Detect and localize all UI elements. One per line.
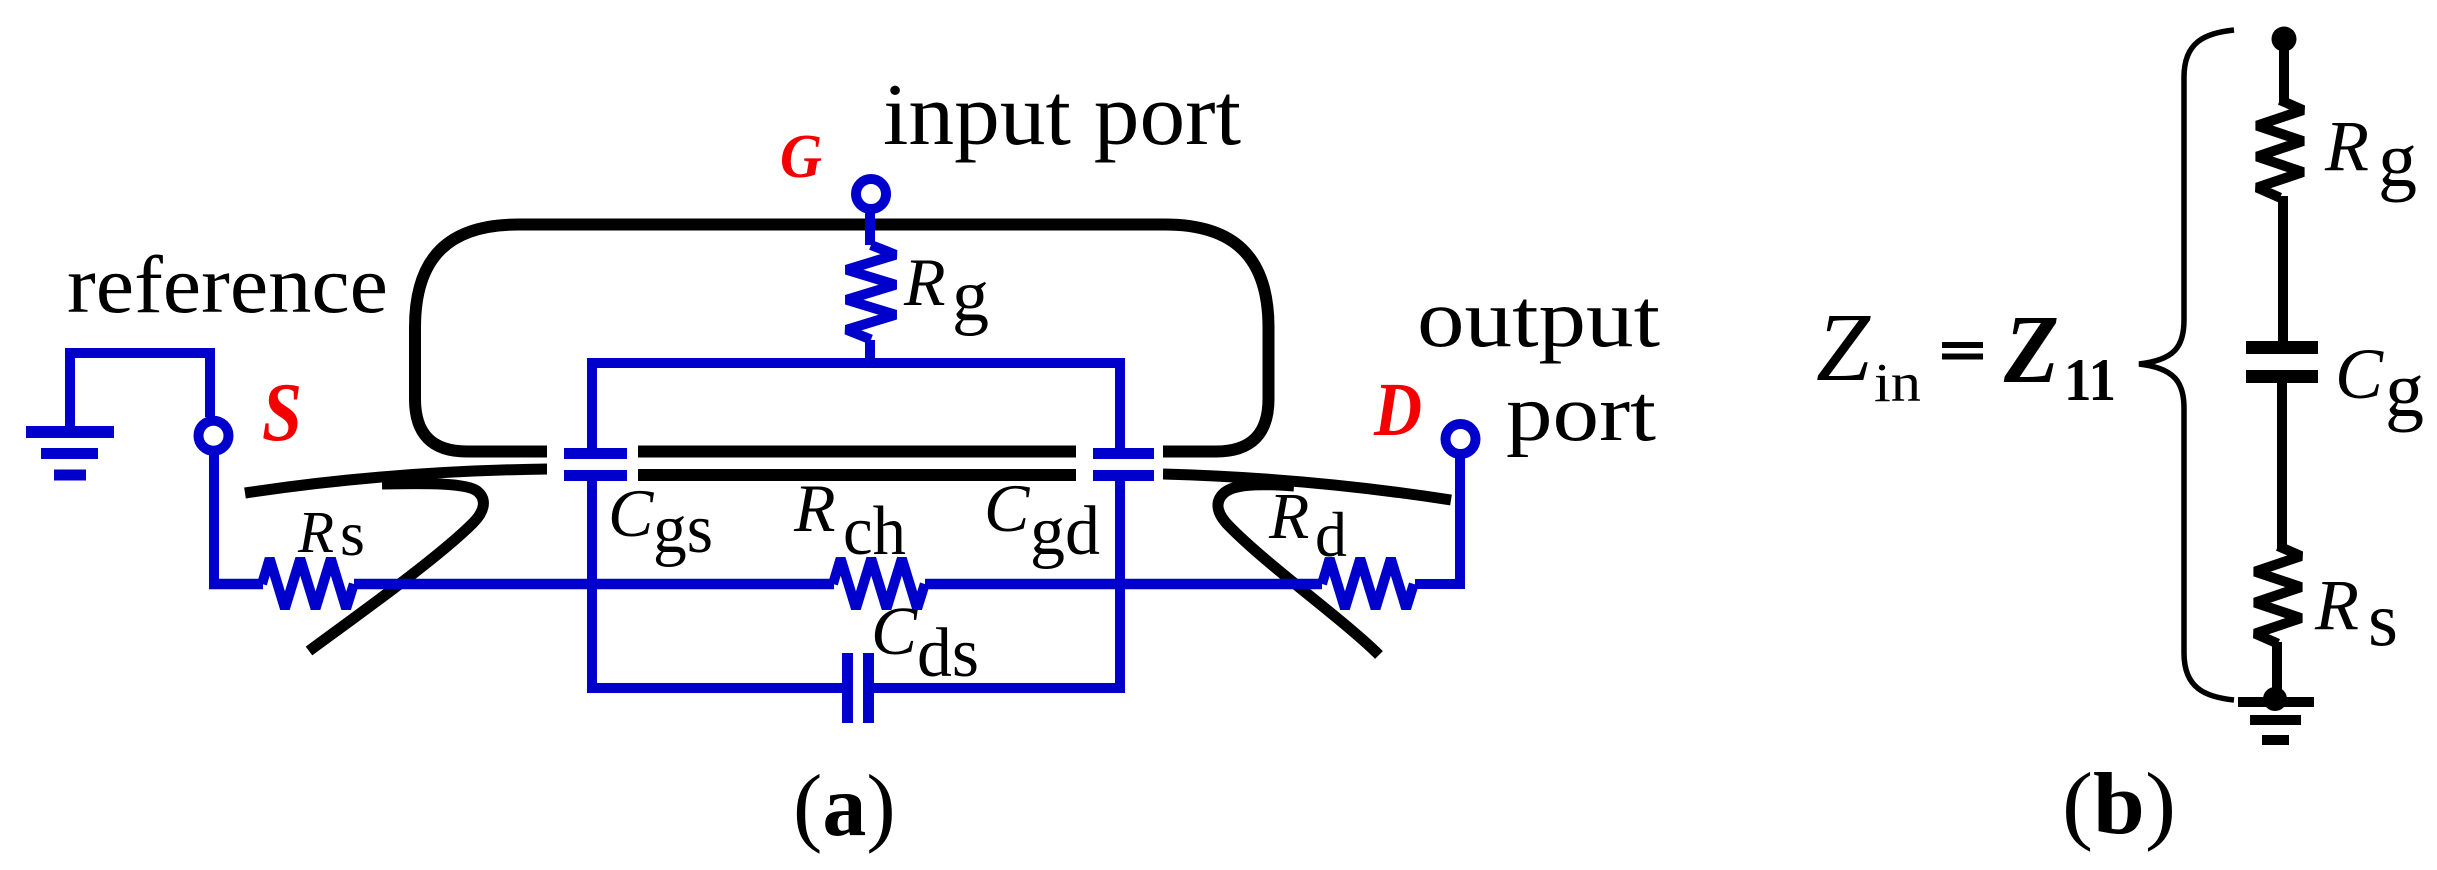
terminal D circle <box>1446 424 1476 454</box>
svg-text:R: R <box>297 499 334 565</box>
source access curve <box>245 469 548 493</box>
wire G to Rg <box>865 210 875 245</box>
capacitor Cgs plates <box>564 448 627 459</box>
terminal dot (b) <box>2272 27 2297 52</box>
wire Rg to Cg (b) <box>2278 196 2288 347</box>
svg-text:port: port <box>1506 370 1656 458</box>
svg-text:gd: gd <box>1030 493 1100 570</box>
intrinsic box top edge <box>587 358 1125 368</box>
wire ground to S terminal <box>70 353 210 417</box>
drain finger hook <box>1218 485 1379 655</box>
box bottom edge left of Cds <box>587 683 842 693</box>
svg-text:R: R <box>793 470 836 546</box>
white gap for Cgd <box>1076 439 1163 491</box>
svg-text:ds: ds <box>917 615 979 692</box>
terminal S circle <box>199 421 229 451</box>
svg-text:Z: Z <box>2003 296 2059 403</box>
svg-text:d: d <box>1315 499 1347 570</box>
gate electrode loop (black rounded rectangle) <box>415 225 1269 452</box>
terminal G circle <box>856 179 886 209</box>
white gap for Cgs <box>547 439 638 491</box>
svg-text:Z: Z <box>1816 294 1871 401</box>
svg-text:reference: reference <box>67 239 388 330</box>
wire Cg to Rs (b) <box>2277 377 2287 548</box>
svg-text:D: D <box>1373 368 1422 452</box>
box bottom edge right of Cds <box>874 683 1125 693</box>
box right edge lower <box>1115 481 1125 693</box>
capacitor Cgd plates <box>1093 448 1154 459</box>
svg-text:g: g <box>2385 346 2424 433</box>
resistor Rs zigzag <box>262 559 354 609</box>
svg-text:S: S <box>262 366 302 459</box>
curly brace <box>2139 30 2234 700</box>
svg-text:s: s <box>2368 576 2398 662</box>
svg-text:ch: ch <box>843 493 906 570</box>
svg-text:(a): (a) <box>793 758 896 855</box>
svg-text:G: G <box>780 123 822 191</box>
ground (left) <box>26 355 114 475</box>
svg-text:s: s <box>340 498 365 569</box>
wire Rg to box <box>865 340 875 366</box>
svg-text:C: C <box>608 475 654 551</box>
capacitor Cds plates <box>842 653 853 723</box>
capacitor Cg plates (b) <box>2246 341 2318 354</box>
svg-text:R: R <box>2314 565 2359 645</box>
svg-text:R: R <box>903 244 946 320</box>
svg-text:R: R <box>1268 480 1309 553</box>
svg-text:in: in <box>1874 352 1921 413</box>
wire Rd to D terminal <box>1415 458 1460 584</box>
source finger hook <box>309 484 483 651</box>
svg-text:g: g <box>2378 116 2417 203</box>
svg-text:R: R <box>2324 106 2369 186</box>
channel line under gate <box>636 469 1076 481</box>
wire source rail left <box>209 579 263 590</box>
svg-text:g: g <box>952 255 989 337</box>
resistor Rch zigzag <box>833 559 925 609</box>
svg-text:C: C <box>871 593 918 669</box>
wire Rch to Rd <box>925 579 1322 590</box>
svg-text:C: C <box>2335 334 2384 414</box>
resistor Rg (b) zigzag <box>2257 100 2303 198</box>
resistor Rg zigzag <box>847 245 896 340</box>
ground dot (b) <box>2263 687 2287 711</box>
svg-text:(b): (b) <box>2062 756 2176 853</box>
wire Rs to Rch <box>354 579 834 590</box>
resistor Rs (b) zigzag <box>2255 546 2301 644</box>
svg-text:11: 11 <box>2064 347 2116 413</box>
svg-text:output: output <box>1417 272 1660 364</box>
resistor Rd zigzag <box>1322 559 1414 609</box>
wire Rs to ground (b) <box>2272 642 2282 699</box>
wire dot to Rg (b) <box>2279 39 2289 102</box>
wire S down to source rail <box>209 455 219 584</box>
box left edge lower <box>587 481 597 693</box>
svg-text:input port: input port <box>883 67 1241 164</box>
box right edge upper (lead to Cgd) <box>1115 358 1125 448</box>
svg-text:gs: gs <box>653 491 713 568</box>
svg-text:C: C <box>984 470 1030 546</box>
drain access curve <box>1163 474 1451 500</box>
box left edge upper (lead to Cgs) <box>587 358 597 448</box>
ground bars (b) <box>2238 702 2314 740</box>
